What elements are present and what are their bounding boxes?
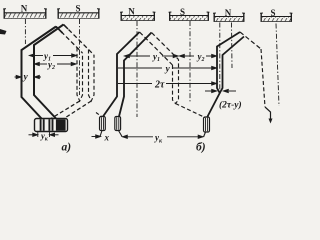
pole shoe N1 (3, 9, 47, 19)
pole shoe S1 (57, 9, 100, 19)
wave coil section 1 (diagram b): lower-layer slot loop (dashed) (173, 60, 179, 104)
coil section 1 of diagram a: lower-layer slot verticals (dashed loop) (77, 48, 83, 102)
dimension y (diagram a, outside arrows) (15, 75, 42, 78)
svg-text:S: S (75, 4, 80, 14)
segment 2 bottom lead (diagram b) (119, 131, 123, 137)
dimension yk arrows (diagram a) (29, 133, 59, 136)
dimension y (diagram b) (118, 66, 217, 69)
previous section lead stub into segment 1 (dashed) (96, 113, 102, 117)
pole axis line (pole 3, dash-dot) (136, 21, 138, 117)
pole shoe N2 (120, 12, 155, 21)
pole axis line (pole 5, dash-dot stub) (231, 23, 234, 69)
coil section 2 of diagram a: upper-layer side and end connection (solid) (34, 25, 64, 119)
svg-text:x: x (104, 133, 110, 143)
commutator segment 1 (diagram b) (100, 117, 106, 131)
pole axis line (pole 2, dash-dot) (79, 19, 81, 95)
continuation arrowhead (diagram b, bottom right) (269, 119, 273, 124)
dimension y2 (diagram a) (35, 62, 77, 65)
wave coil section 1 (diagram b): inner edge solid (119, 33, 152, 117)
pole axis line (pole 6, dash-dot) (276, 24, 279, 107)
svg-text:N: N (225, 8, 232, 18)
dimension yk long arrow (diagram b) (123, 135, 204, 138)
pole axis line (pole 4, dash-dot) (189, 21, 191, 103)
svg-text:S: S (270, 8, 275, 18)
svg-text:y: y (165, 65, 171, 75)
svg-text:2τ: 2τ (154, 80, 165, 91)
coil section 2 of diagram a: lower-layer slot verticals (dashed loop) (89, 50, 95, 102)
wave coil section 2 (diagram b): far slot side (dashed) (261, 49, 265, 107)
svg-text:(2τ-y): (2τ-y) (219, 100, 242, 111)
commutator segments (diagram a) (35, 119, 68, 132)
coil section 2 of diagram a: lower-layer side (dashed) (64, 25, 95, 56)
pole shoe S3 (260, 13, 292, 22)
wave coil section 1 (diagram b): outer edge solid (103, 32, 140, 117)
dimension y1 (diagram b) (125, 54, 179, 57)
coil section 1 of diagram a: solid stub at peak (56, 27, 63, 34)
dimension y2 (diagram b) (180, 54, 217, 57)
commutator segment 2 (diagram b) (115, 117, 121, 131)
svg-text:N: N (128, 7, 135, 17)
wave coil section 2 (diagram b): falling end connection (dashed) (240, 32, 261, 49)
2-tau reference line (dash-dot) (219, 23, 221, 95)
coil section 2 of diagram a: solid stub at peak (64, 25, 69, 30)
dimension x (diagram b) (92, 135, 101, 138)
wave coil section 2 (diagram b): slot loop and end (solid) (207, 32, 240, 118)
svg-text:y: y (23, 73, 29, 83)
coil section 1 of diagram a: lower-layer side (dashed) (56, 27, 83, 54)
pole shoe S2 (169, 12, 210, 21)
commutator segment 3 (diagram b) (204, 117, 210, 132)
pole axis line (pole 1, dash-dot) (24, 19, 26, 44)
wave coil section 1 (diagram b): lead to far commutator segment (dashed) (176, 104, 206, 118)
pole shoe N3 (213, 13, 245, 22)
dimension (2tau - y) small arrows (diagram b) (205, 89, 236, 92)
svg-text:а): а) (62, 142, 72, 154)
svg-text:S: S (180, 7, 185, 17)
stray ink mark top-left margin (0, 29, 7, 35)
coil section 1 of diagram a: upper-layer side and end connection (solid) (22, 27, 57, 119)
dimension y1 (diagram a) (30, 54, 77, 57)
dimension ticks yk (diagram a) (37, 132, 39, 138)
wave coil section 1 (diagram b): lower-layer end connections (dashed) (140, 32, 173, 65)
svg-text:N: N (21, 4, 28, 14)
coil section 2 of diagram a: lead to commutator segment 3 (dashed) (64, 101, 91, 119)
dimension 2tau (diagram b) (118, 82, 217, 85)
svg-text:б): б) (196, 142, 206, 154)
coil section 1 of diagram a: lead to commutator segment 2 (dashed) (51, 101, 80, 119)
segment 1 bottom lead (diagram b) (100, 131, 102, 137)
segment 3 bottom lead (diagram b) (204, 132, 206, 137)
